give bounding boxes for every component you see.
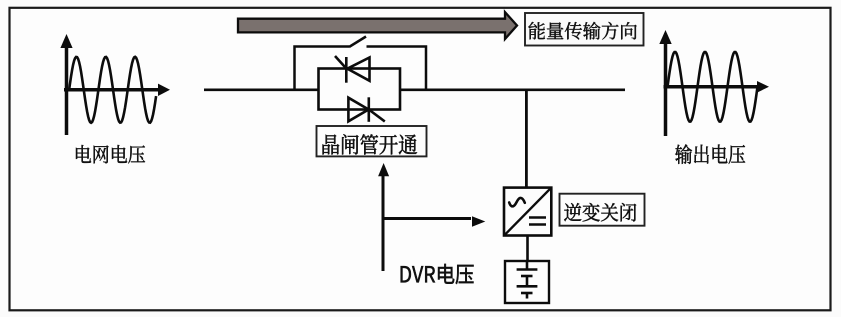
label 电网电压 xyxy=(76,145,145,163)
output voltage waveform (axes + sine) xyxy=(664,42,759,136)
DVR arrow horizontal xyxy=(383,217,471,220)
wire inverter to battery xyxy=(526,236,529,262)
label 逆变关闭 xyxy=(560,194,645,226)
label 能量传输方向 xyxy=(525,13,644,46)
wire bus junction to inverter xyxy=(525,90,528,188)
label DVR电压 xyxy=(401,264,474,284)
DVR voltage arrow vertical xyxy=(382,176,385,271)
energy flow arrow xyxy=(238,12,517,39)
bypass switch blade xyxy=(349,37,366,48)
thyristor VT2 (bottom, anode left) xyxy=(348,97,384,122)
battery E1 (DC storage) xyxy=(505,261,549,303)
inverter U1 box xyxy=(504,188,551,236)
thyristor module box xyxy=(319,69,401,110)
label 输出电压 xyxy=(675,144,745,164)
bypass switch wire loop xyxy=(295,47,427,90)
label 晶闸管开通 xyxy=(317,126,427,156)
wire bus right xyxy=(400,89,625,92)
wire bus left xyxy=(204,89,319,92)
thyristor VT1 (top, anode right) xyxy=(335,56,370,83)
input voltage waveform (axes + sine) xyxy=(64,46,159,135)
